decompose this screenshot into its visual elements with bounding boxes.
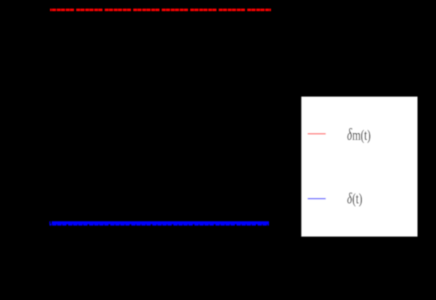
svg-text:(t): (t) [352,191,362,207]
svg-text:m(t): m(t) [352,128,371,144]
